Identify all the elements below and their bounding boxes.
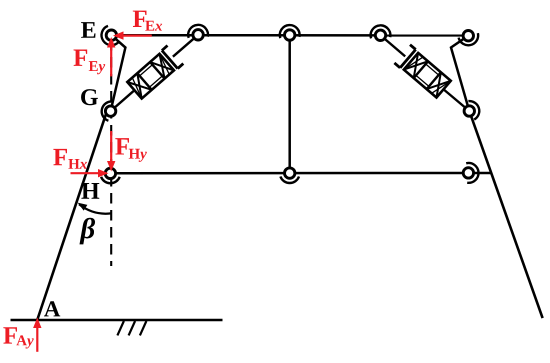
hydraulic cylinder left body [127,46,183,99]
force arrow F_Ey [107,37,115,76]
force label F_Ey [74,49,106,74]
left cylinder rod upper (to top pin) [173,35,198,57]
hook at bottom middle pin [280,177,299,184]
pin E [106,30,116,40]
dashed vertical reference line through E G H [110,40,112,266]
label A [44,301,60,316]
ground hatch 3 [140,321,147,335]
left leg A to G [37,108,108,320]
label H [81,183,99,199]
pin top right [463,31,473,41]
force label F_Hx [53,149,87,169]
hook at P5 [468,101,479,120]
pin P6 [463,168,473,178]
force arrow F_Hy [107,131,115,172]
bottom bar H to right leg link [110,172,491,175]
pin top 1 [193,30,203,40]
hook at top-right pin [459,33,479,45]
ground hatch 1 [117,321,124,335]
pin G [105,106,115,116]
force label F_Ay [3,327,33,348]
vertical middle bar [288,35,291,173]
force arrow F_Ay [33,318,41,352]
hydraulic cylinder right body [394,45,450,98]
pin bottom middle [285,168,295,178]
pin top 3 [375,30,385,40]
pin P5 [464,106,474,116]
force label F_Ex [133,11,162,31]
hook at top pin 3 [371,25,391,38]
hook at H [101,177,120,184]
ground line [11,319,223,322]
bent link top-right pin to P5 [451,36,469,111]
angle beta arrowhead [78,203,88,211]
force arrow F_Hx [71,169,109,177]
label G [81,89,98,105]
left cylinder rod lower (to G) [111,81,145,111]
pin H [105,168,115,178]
bent link E-G [111,35,126,111]
hook at E [102,26,119,45]
right cylinder rod lower (to P5) [436,83,469,111]
pin top 2 [285,30,295,40]
angle beta arc [79,204,111,213]
ground hatch 2 [129,321,136,335]
hook at top pin 1 [188,25,208,38]
hook at top pin 2 [280,25,300,38]
label beta [80,218,96,245]
label E [81,22,95,38]
right cylinder rod upper (to top pin) [381,35,406,56]
hook at G [102,101,113,120]
hook at P6 [466,163,478,183]
force label F_Hy [115,138,147,162]
force arrow F_Ex [113,31,152,39]
right leg P5 to bottom right [469,111,542,318]
top bar E to top-right pin [111,34,468,37]
